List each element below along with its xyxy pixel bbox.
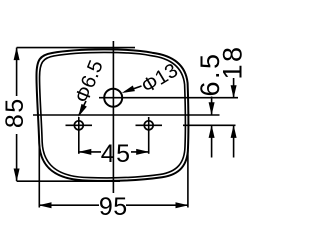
svg-text:85: 85 [1, 97, 29, 128]
svg-text:95: 95 [99, 193, 128, 221]
svg-text:18: 18 [218, 44, 248, 79]
svg-text:Φ6.5: Φ6.5 [71, 57, 108, 106]
svg-text:45: 45 [101, 140, 132, 168]
